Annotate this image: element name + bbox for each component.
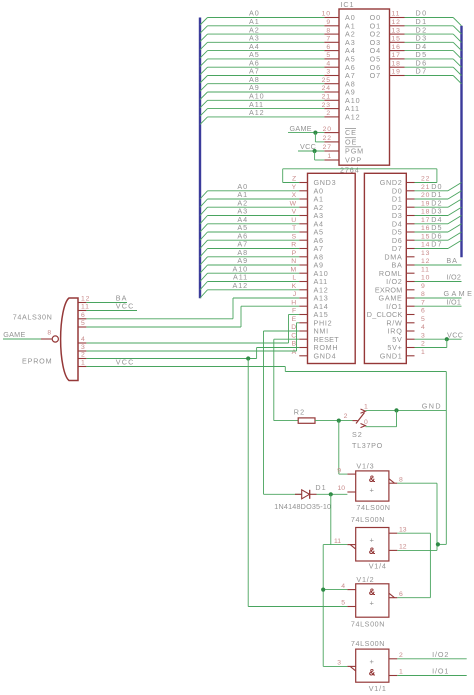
V1/1 pin 1 [389, 675, 397, 677]
nand V1/2 body [356, 584, 389, 617]
svg-text:Z: Z [292, 176, 297, 183]
svg-text:7: 7 [326, 36, 331, 43]
V1/4 pin 11 output with negation flag [347, 544, 355, 546]
svg-text:H: H [291, 299, 297, 306]
svg-text:3: 3 [421, 332, 426, 339]
connector pin X (A1) [299, 198, 307, 200]
svg-text:OE: OE [345, 138, 357, 147]
V1/3 pin 10 [347, 491, 355, 493]
IC1 pin 27 (PGM) [324, 150, 339, 152]
wire net VCC gate pin 1 long run [86, 366, 285, 368]
svg-text:I/O1: I/O1 [432, 667, 449, 676]
connector pin 4 (IRQ) [406, 330, 414, 332]
wire net GAME to IC1 CE [288, 132, 324, 134]
connector pin 16 (D5) [406, 231, 414, 233]
svg-text:P: P [292, 250, 297, 257]
svg-text:11: 11 [334, 538, 341, 545]
svg-text:8: 8 [47, 330, 52, 337]
wire V1/1 out left up [323, 665, 347, 667]
connector pin 1 (GND1) [406, 355, 414, 357]
svg-text:9: 9 [337, 467, 341, 474]
svg-text:3: 3 [326, 69, 331, 76]
svg-text:Y: Y [292, 184, 297, 191]
svg-text:2: 2 [421, 341, 426, 348]
svg-text:VPP: VPP [345, 156, 362, 165]
connector pin 6 (D_CLOCK) [406, 314, 414, 316]
wire VCC to 5V+ [446, 339, 448, 347]
junction latch right [436, 542, 440, 546]
wire net A4 to connector [208, 223, 300, 225]
wire net A5 to connector [208, 231, 300, 233]
IC1 pin 7 (A3) [324, 41, 339, 43]
wire A10 bus entry [200, 100, 208, 108]
svg-text:U: U [291, 217, 297, 224]
svg-text:A12: A12 [249, 108, 265, 117]
connector pin 12 (BA) [406, 264, 414, 266]
wire net GAME (connector pin 8) [415, 297, 462, 299]
wire A4 bus entry (connector) [200, 224, 208, 232]
connector pin 2 (5V+) [406, 347, 414, 349]
svg-text:24: 24 [322, 85, 331, 92]
IC1 pin 1 (VPP) [324, 159, 339, 161]
svg-text:19: 19 [421, 200, 430, 207]
svg-text:4: 4 [421, 324, 426, 331]
wire net D6 from IC1 [405, 66, 454, 68]
IC1 pin 8 (A2) [324, 33, 339, 35]
svg-text:S2: S2 [352, 430, 363, 439]
connector pin 7 (I/O1) [406, 305, 414, 307]
wire A3 bus entry (connector) [200, 216, 208, 224]
connector pin Z (GND3) [299, 182, 307, 184]
svg-text:74LS00N: 74LS00N [351, 639, 385, 648]
svg-text:12: 12 [421, 258, 430, 265]
wire net GAME gate output [3, 338, 41, 340]
V1/2 pin 4 [347, 589, 355, 591]
wire D1 bus entry [453, 26, 461, 34]
nand gate V1/1 74LS00N [323, 639, 467, 693]
wire VCC to VPP [314, 151, 316, 160]
wire A2 bus entry (connector) [200, 207, 208, 215]
svg-text:&: & [369, 474, 376, 484]
svg-text:13: 13 [399, 526, 407, 533]
IC1 pin 20 (CE) [324, 132, 339, 134]
svg-text:13: 13 [421, 250, 430, 257]
svg-text:+: + [370, 598, 375, 607]
IC1 pin 6 (A4) [324, 50, 339, 52]
connector pin 8 (GAME) [406, 297, 414, 299]
svg-text:10: 10 [421, 275, 430, 282]
junction D1/V1-4 [329, 492, 333, 496]
wire A0 bus entry (connector) [200, 191, 208, 199]
svg-text:10: 10 [337, 485, 345, 492]
svg-text:11: 11 [421, 266, 430, 273]
inversion bubble output pin 8 [52, 336, 58, 342]
wire net A9 to connector [208, 264, 300, 266]
svg-text:17: 17 [392, 52, 401, 59]
svg-text:5: 5 [421, 316, 426, 323]
svg-text:6: 6 [399, 591, 403, 598]
connector pin J (A13) [299, 297, 307, 299]
connector pin C (RESET) [299, 338, 307, 340]
svg-text:1: 1 [421, 349, 426, 356]
wire net A11 to IC1 [208, 108, 325, 110]
svg-text:74ALS30N: 74ALS30N [13, 312, 53, 321]
IC1 pin 21 (A10) [324, 99, 339, 101]
connector pin 5 (R/W) [406, 322, 414, 324]
wire GND2 to GND3 loop [415, 182, 437, 184]
IC1 pin 5 (A5) [324, 58, 339, 60]
IC1 pin 9 (A1) [324, 25, 339, 27]
connector pin F (A15) [299, 314, 307, 316]
wire D5 bus entry [453, 59, 461, 67]
wire net D7 from IC1 [405, 75, 454, 77]
wire A1 bus entry [200, 26, 208, 34]
connector pin P (A8) [299, 256, 307, 258]
svg-text:&: & [369, 587, 376, 597]
wire V1/2 out right [397, 597, 430, 599]
nand gate V1/4 74LS00N [323, 515, 430, 666]
wire A5 bus entry [200, 59, 208, 67]
svg-text:S: S [292, 233, 297, 240]
svg-text:1: 1 [364, 403, 369, 410]
nand gate V1/2 74LS00N [321, 575, 430, 628]
wire net A12 to connector [208, 289, 300, 291]
bus left A-bus [199, 18, 201, 299]
svg-text:I/O2: I/O2 [432, 650, 449, 659]
wire ROMH down to V1/2 pin 5 [247, 359, 249, 607]
svg-text:8: 8 [421, 291, 426, 298]
svg-text:K: K [292, 283, 297, 290]
svg-text:V1/4: V1/4 [369, 561, 387, 570]
svg-text:W: W [290, 200, 297, 207]
svg-text:CE: CE [345, 128, 357, 137]
svg-text:1: 1 [81, 360, 86, 367]
connector pin T (A5) [299, 231, 307, 233]
svg-text:E: E [292, 316, 297, 323]
wire D7 bus entry [453, 76, 461, 84]
svg-text:3: 3 [81, 344, 86, 351]
svg-text:14: 14 [421, 242, 430, 249]
junction VCC/VPP [313, 149, 317, 153]
V1/1 pin 3 output with negation flag [347, 665, 355, 667]
connector pin W (A2) [299, 206, 307, 208]
wire net NMI connector D to diode D1 [264, 330, 300, 332]
svg-text:R2: R2 [294, 407, 306, 416]
svg-text:A12: A12 [233, 281, 249, 290]
IC1 pin 17 (O5) [390, 58, 405, 60]
wire net A10 to connector [208, 272, 300, 274]
wire S2 lower contact loop [396, 410, 398, 426]
V1/3 pin 9 [347, 473, 355, 475]
wire net I/O2 [397, 658, 466, 660]
IC1 pin 22 (OE) [324, 141, 339, 143]
wire net D2 from IC1 [405, 33, 454, 35]
svg-text:22: 22 [421, 176, 430, 183]
svg-text:21: 21 [421, 184, 430, 191]
wire net VCC to IC1 PGM [298, 150, 324, 152]
wire net D4 from IC1 [405, 50, 454, 52]
svg-text:+: + [370, 657, 375, 666]
wire net A10 to IC1 [208, 99, 325, 101]
wire A4 bus entry [200, 51, 208, 59]
svg-text:74LS00N: 74LS00N [351, 515, 385, 524]
wire A6 bus entry (connector) [200, 240, 208, 248]
connector pin 9 (EXROM) [406, 289, 414, 291]
IC1 pin 12 (O1) [390, 25, 405, 27]
wire A6 bus entry [200, 67, 208, 75]
IC1 pin 25 (A8) [324, 83, 339, 85]
wire net A4 to IC1 [208, 50, 325, 52]
wire net A14 connector to gate [241, 305, 299, 307]
svg-text:16: 16 [421, 225, 430, 232]
wire net A1 to connector [208, 198, 300, 200]
svg-text:15: 15 [421, 233, 430, 240]
svg-text:6: 6 [326, 44, 331, 51]
wire A8 bus entry (connector) [200, 257, 208, 265]
svg-text:2: 2 [81, 352, 86, 359]
wire net BA gate pin 12 [86, 302, 127, 304]
wire net A5 to IC1 [208, 58, 325, 60]
gate input pin 2 [78, 358, 86, 360]
svg-text:11: 11 [81, 304, 90, 311]
svg-text:5: 5 [341, 600, 345, 607]
connector pin B (ROMH) [299, 347, 307, 349]
wire net D0 from connector [415, 190, 449, 192]
IC1 pin 16 (O4) [390, 50, 405, 52]
gate input pin 12 [78, 302, 86, 304]
svg-text:1N4148DO35-10: 1N4148DO35-10 [274, 502, 331, 511]
connector pin L (A11) [299, 281, 307, 283]
svg-text:GND: GND [422, 401, 442, 410]
gate input pin 3 [78, 350, 86, 352]
wire net A15 connector to gate [289, 314, 300, 316]
wire net D0 from IC1 [405, 17, 454, 19]
svg-text:4: 4 [326, 60, 331, 67]
svg-text:X: X [292, 192, 297, 199]
connector pin 3 (5V) [406, 338, 414, 340]
svg-text:EPROM: EPROM [22, 356, 52, 365]
wire A7 bus entry [200, 76, 208, 84]
V1/2 pin 6 output with negation flag [389, 597, 397, 599]
wire A11 bus entry (connector) [200, 282, 208, 290]
resistor R2 [294, 407, 353, 474]
wire net A0 to connector [208, 190, 300, 192]
wire net D6 from connector [415, 239, 449, 241]
wire net ROMH connector B to gate pin 2 [257, 347, 300, 349]
wire net I/O1 [397, 675, 466, 677]
wire net D1 from connector [415, 198, 449, 200]
svg-text:7: 7 [421, 299, 426, 306]
V1/2 pin 5 [347, 606, 355, 608]
svg-text:6: 6 [81, 312, 86, 319]
wire V1/4 out left [323, 544, 347, 546]
connector pin 20 (D1) [406, 198, 414, 200]
wire A11 bus entry [200, 109, 208, 117]
connector pin K (A12) [299, 289, 307, 291]
wire net VCC gate pin 11 [86, 310, 137, 312]
svg-text:I/O2: I/O2 [446, 273, 461, 282]
gate input pin 1 [78, 366, 86, 368]
svg-text:VCC: VCC [447, 330, 463, 339]
connector pin A (GND4) [299, 355, 307, 357]
V1/1 pin 2 [389, 658, 397, 660]
svg-text:15: 15 [392, 36, 401, 43]
svg-text:GAME: GAME [3, 330, 25, 339]
connector pin D (NMI) [299, 330, 307, 332]
diode D1 1N4148 [274, 483, 347, 545]
wire D4 bus entry [453, 51, 461, 59]
wire net D3 from IC1 [405, 41, 454, 43]
IC1 pin 15 (O3) [390, 41, 405, 43]
wire V1/2 pin 4 from latch [323, 589, 347, 591]
gate input pin 5 [78, 326, 86, 328]
svg-text:27: 27 [323, 144, 332, 151]
svg-text:9: 9 [421, 283, 426, 290]
wire D3 bus entry [453, 42, 461, 50]
svg-text:V: V [292, 209, 297, 216]
svg-text:3: 3 [337, 660, 341, 667]
svg-text:6: 6 [421, 308, 426, 315]
gate output pin 8 stub [41, 338, 52, 340]
svg-text:5: 5 [326, 52, 331, 59]
wire net VCC (connector pin 3) [415, 338, 462, 340]
wire net A9 to IC1 [208, 91, 325, 93]
svg-text:IC1: IC1 [341, 0, 355, 9]
svg-text:74LS00N: 74LS00N [351, 619, 385, 628]
wire net A6 to IC1 [208, 66, 325, 68]
nand V1/1 body [356, 649, 389, 682]
svg-text:9: 9 [326, 19, 331, 26]
wire net A1 to IC1 [208, 25, 325, 27]
wire net A3 to connector [208, 215, 300, 217]
wire D1 cathode to V1/3 pin 10 [317, 493, 348, 495]
IC1 pin 18 (O6) [390, 66, 405, 68]
svg-text:T: T [292, 225, 297, 232]
svg-text:F: F [292, 308, 297, 315]
svg-text:A12: A12 [345, 113, 361, 122]
V1/4 pin 12 [389, 549, 397, 551]
IC1 pin 23 (A11) [324, 108, 339, 110]
svg-text:D7: D7 [416, 67, 428, 76]
switch S2 TL37PO [344, 401, 447, 450]
svg-text:18: 18 [392, 60, 401, 67]
wire A10 bus entry (connector) [200, 273, 208, 281]
svg-text:GAME: GAME [290, 124, 312, 133]
svg-text:21: 21 [322, 94, 331, 101]
wire A1 bus entry (connector) [200, 199, 208, 207]
bus right D-bus [460, 26, 462, 257]
connector pin U (A4) [299, 223, 307, 225]
IC1 pin 19 (O7) [390, 75, 405, 77]
wire net D3 from connector [415, 215, 449, 217]
gate U2 74ALS30N EPROM decoder [3, 298, 78, 381]
svg-text:2: 2 [399, 652, 403, 659]
wire net BA (connector pin 12) [415, 264, 462, 266]
IC1 pin 2 (A12) [324, 116, 339, 118]
gate input pin 4 [78, 342, 86, 344]
wire A12 bus entry (connector) [200, 290, 208, 298]
wire net A2 to IC1 [208, 33, 325, 35]
svg-text:R: R [291, 242, 297, 249]
svg-text:V1/3: V1/3 [356, 461, 374, 470]
wire D2 bus entry (connector) [448, 199, 462, 207]
wire latch feedback down [330, 494, 332, 544]
svg-text:23: 23 [322, 102, 331, 109]
junction S2 contacts [394, 408, 398, 412]
svg-text:GND4: GND4 [314, 351, 337, 360]
svg-text:18: 18 [421, 209, 430, 216]
nand V1/4 body [356, 528, 389, 562]
V1/3 pin 8 output with negation flag [389, 482, 397, 484]
junction latch left [321, 588, 325, 592]
switch contact pin 0 [361, 424, 366, 428]
svg-text:&: & [369, 668, 376, 678]
svg-text:12: 12 [81, 296, 90, 303]
wire net D5 from connector [415, 231, 449, 233]
connector pin 17 (D4) [406, 223, 414, 225]
svg-text:O7: O7 [370, 71, 381, 80]
connector pin 21 (D0) [406, 190, 414, 192]
connector pin R (A7) [299, 248, 307, 250]
svg-text:BA: BA [446, 256, 458, 265]
wire A2 bus entry [200, 34, 208, 42]
wire net A11 to connector [208, 281, 300, 283]
wire V1/3 out to V1/4 pin 12 [397, 482, 437, 484]
svg-text:J: J [293, 291, 297, 298]
connector pin 15 (D6) [406, 239, 414, 241]
junction R2/S2/V1-3 pin9 [337, 419, 341, 423]
svg-text:PGM: PGM [345, 147, 364, 156]
wire junction down to V1/3 pin 9 [338, 421, 340, 475]
svg-text:17: 17 [421, 217, 430, 224]
svg-text:10: 10 [322, 11, 331, 18]
connector pin Y (A0) [299, 190, 307, 192]
wire net D2 from connector [415, 206, 449, 208]
wire D6 bus entry [453, 67, 461, 75]
svg-text:N: N [291, 258, 297, 265]
wire net I/O2 (connector pin 10) [415, 281, 462, 283]
svg-text:&: & [369, 546, 376, 556]
svg-text:22: 22 [323, 135, 332, 142]
nand V1/3 body [356, 471, 389, 501]
junction ROMH [246, 356, 250, 360]
wire net RESET connector C to R2 [274, 338, 299, 340]
connector pin V (A3) [299, 215, 307, 217]
svg-text:8: 8 [326, 27, 331, 34]
wire net A0 to IC1 [208, 17, 325, 19]
switch actuator [356, 413, 365, 424]
wire D4 bus entry (connector) [448, 216, 462, 224]
V1/4 pin 13 [389, 532, 397, 534]
connector pin 13 (DMA) [406, 256, 414, 258]
wire D5 bus entry (connector) [448, 224, 462, 232]
wire net A13 connector to gate [233, 297, 299, 299]
wire net A3 to IC1 [208, 41, 325, 43]
wire net A8 to IC1 [208, 83, 325, 85]
svg-text:I/O1: I/O1 [446, 297, 461, 306]
svg-text:TL37PO: TL37PO [352, 441, 383, 450]
connector pin M (A10) [299, 272, 307, 274]
svg-text:+: + [370, 485, 375, 494]
nand gate V1/3 74LS00N [337, 461, 440, 550]
IC1 pin 24 (A9) [324, 91, 339, 93]
wire net A7 to connector [208, 248, 300, 250]
junction GAME/OE [313, 131, 317, 135]
wire net A2 to connector [208, 206, 300, 208]
svg-text:4: 4 [81, 336, 86, 343]
svg-text:+: + [370, 536, 375, 545]
IC1 EPROM 2764 [339, 0, 390, 174]
